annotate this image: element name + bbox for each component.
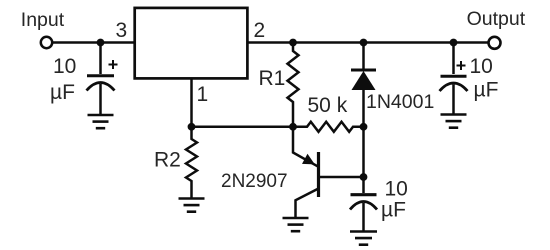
- wire C2 bottom lead: [452, 85, 455, 115]
- svg-text:1N4001: 1N4001: [366, 91, 434, 113]
- diode D1 triangle: [352, 71, 376, 90]
- svg-text:Input: Input: [21, 9, 65, 31]
- node 50k right junction: [360, 123, 368, 131]
- svg-text:2: 2: [254, 19, 266, 42]
- ground transistor collector: [283, 218, 309, 231]
- capacitor C2 positive plate: [441, 75, 467, 78]
- wire C3 top lead: [362, 177, 365, 193]
- transistor Q1 base lead: [319, 176, 364, 179]
- capacitor C1 10uF positive plate: [87, 74, 114, 77]
- diode D1 1N4001 top lead: [362, 43, 365, 70]
- svg-text:10: 10: [470, 55, 493, 78]
- ground C2: [441, 115, 467, 128]
- terminal Output: [489, 37, 501, 49]
- transistor Q1 emitter arrow: [302, 154, 315, 165]
- transistor Q1 base bar: [317, 152, 320, 197]
- wire pin 1 to R1 bottom node: [192, 126, 294, 129]
- capacitor C2 curved plate: [440, 83, 468, 91]
- node C2 junction: [450, 39, 458, 47]
- node diode top junction: [360, 39, 368, 47]
- transistor Q1 collector lead: [296, 189, 319, 219]
- svg-text:µF: µF: [381, 199, 406, 222]
- resistor R2: [186, 127, 197, 198]
- regulator U1 body: [135, 8, 248, 79]
- diode D1 cathode bar: [351, 69, 376, 72]
- svg-text:2N2907: 2N2907: [221, 171, 288, 192]
- svg-text:µF: µF: [474, 79, 499, 102]
- diode D1 bottom lead: [362, 89, 365, 127]
- svg-text:10: 10: [53, 55, 76, 78]
- transistor Q1 emitter lead: [293, 127, 319, 167]
- capacitor C3 top plate: [351, 193, 377, 196]
- capacitor C2 polarity +: [457, 61, 466, 70]
- wire input rail to regulator pin 3: [52, 41, 134, 44]
- capacitor C1 curved plate: [87, 83, 115, 91]
- wire diode node to base node: [362, 127, 365, 177]
- node R1 top junction: [289, 39, 297, 47]
- wire C1 bottom lead: [99, 84, 102, 115]
- node pin 1 junction: [188, 123, 196, 131]
- svg-text:R2: R2: [154, 149, 181, 172]
- wire C1 top lead: [99, 43, 102, 75]
- ground input capacitor: [88, 115, 114, 128]
- resistor R1: [288, 43, 299, 127]
- wire regulator pin 2 to output terminal: [247, 41, 488, 44]
- ground R2: [179, 199, 205, 212]
- capacitor C3 curved plate: [350, 202, 377, 210]
- capacitor C1 polarity +: [109, 60, 118, 69]
- node R1 bottom junction: [289, 123, 297, 131]
- svg-text:µF: µF: [50, 81, 75, 104]
- terminal Input: [41, 37, 52, 48]
- svg-text:R1: R1: [259, 67, 286, 90]
- wire C3 bottom lead: [362, 203, 365, 232]
- ground C3: [350, 232, 377, 245]
- wire C2 top lead: [452, 43, 455, 75]
- svg-text:1: 1: [197, 83, 209, 106]
- svg-text:50 k: 50 k: [308, 94, 348, 117]
- node input junction: [97, 39, 105, 47]
- svg-text:Output: Output: [467, 8, 526, 30]
- wire pin 1 lead: [190, 78, 193, 127]
- svg-text:10: 10: [385, 178, 408, 201]
- node base junction: [360, 173, 368, 181]
- svg-text:3: 3: [116, 19, 128, 42]
- potentiometer 50 k: [293, 122, 364, 132]
